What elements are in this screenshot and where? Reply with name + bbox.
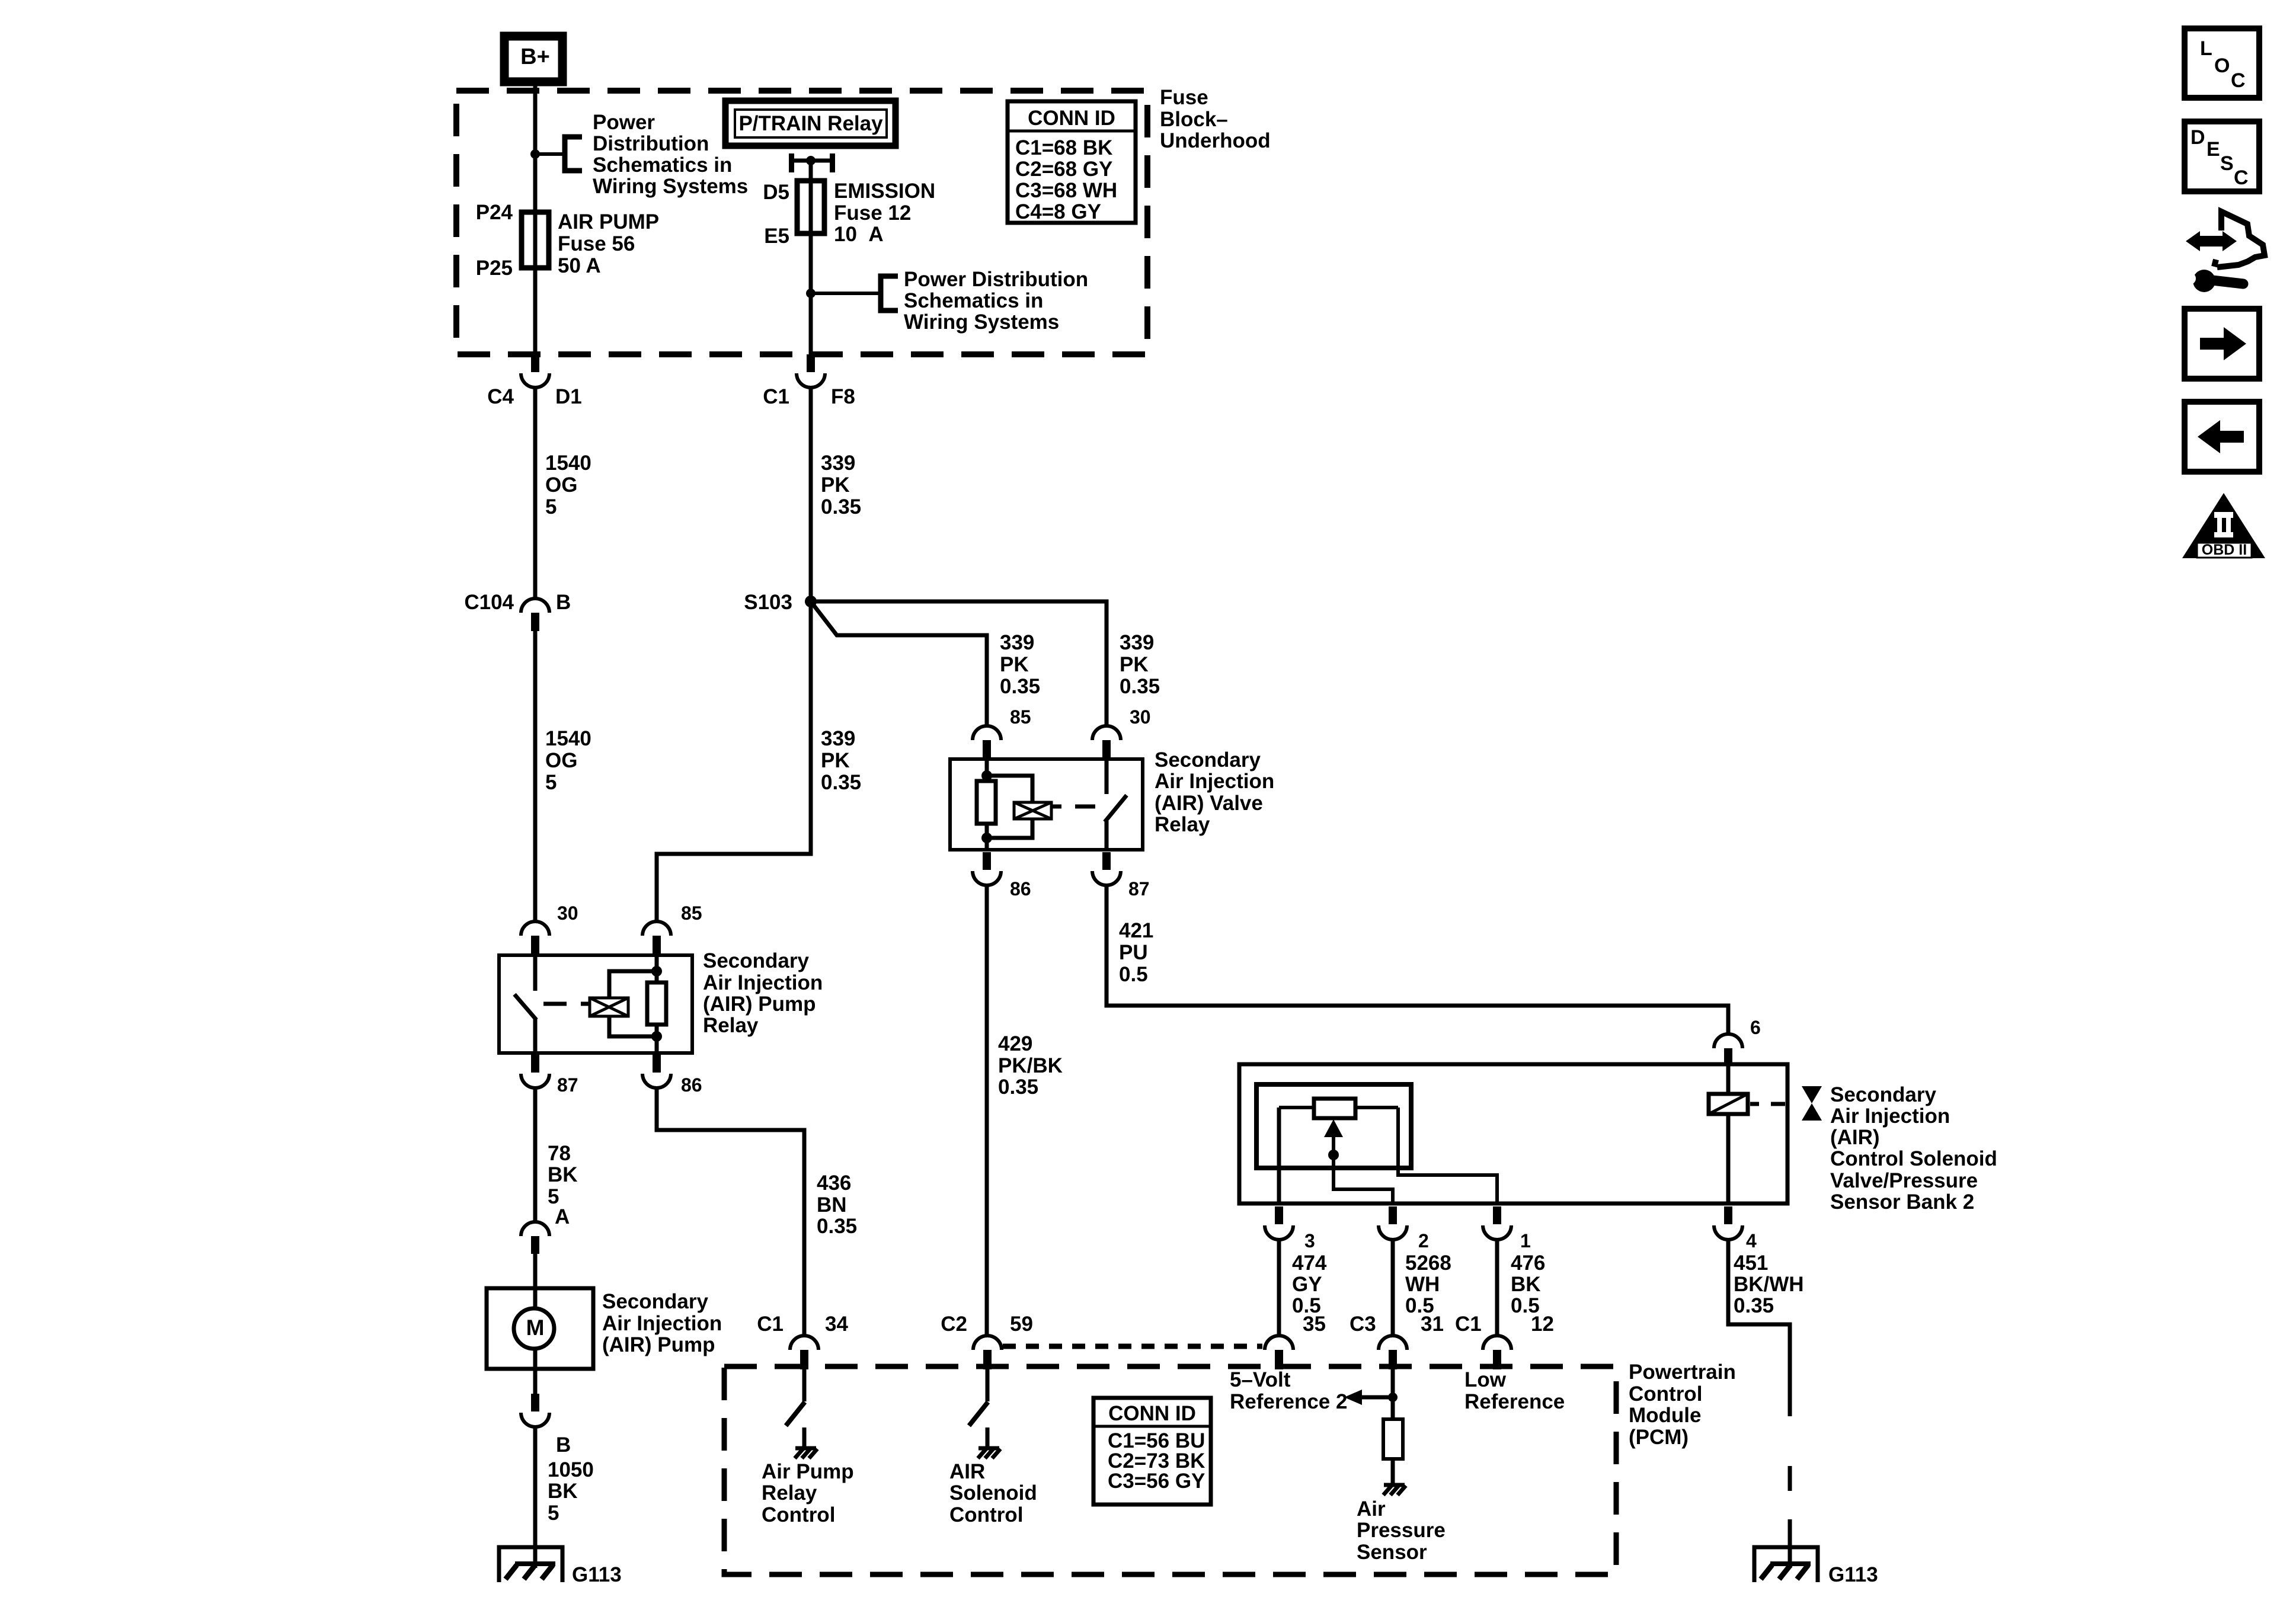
svg-text:4: 4 xyxy=(1746,1230,1757,1251)
svg-text:Reference 2: Reference 2 xyxy=(1230,1390,1347,1413)
CONN ID rows 1 xyxy=(1015,136,1117,223)
svg-text:Relay: Relay xyxy=(703,1014,759,1037)
svg-text:Air Pump: Air Pump xyxy=(762,1460,854,1483)
pump relay pin 87 label xyxy=(557,1074,578,1096)
svg-text:Fuse: Fuse xyxy=(1160,86,1208,109)
wire S103 down to pump relay 85 xyxy=(657,601,811,920)
connector valve relay pin 30 xyxy=(1092,726,1121,759)
svg-text:OBD II: OBD II xyxy=(2202,542,2247,558)
svg-text:PK: PK xyxy=(821,473,850,497)
svg-text:34: 34 xyxy=(825,1313,848,1336)
svg-text:Secondary: Secondary xyxy=(602,1290,708,1313)
P/TRAIN Relay label xyxy=(738,112,883,135)
relay K2 Secondary Air Injection (AIR) Valve Relay box xyxy=(950,759,1143,850)
svg-text:Air Injection: Air Injection xyxy=(703,971,823,994)
air pressure sensor resistor xyxy=(1383,1419,1403,1459)
svg-text:86: 86 xyxy=(681,1074,702,1096)
svg-text:A: A xyxy=(555,1205,570,1228)
svg-text:S: S xyxy=(2220,152,2234,175)
svg-text:Module: Module xyxy=(1629,1404,1701,1427)
pump pin A label xyxy=(555,1205,570,1228)
pump label xyxy=(602,1290,722,1356)
svg-text:AIR: AIR xyxy=(949,1460,985,1483)
svg-text:Power: Power xyxy=(593,111,655,134)
svg-text:E: E xyxy=(2207,138,2220,161)
svg-text:BK/WH: BK/WH xyxy=(1734,1273,1804,1296)
valve relay switch blade xyxy=(1105,795,1127,822)
svg-text:Relay: Relay xyxy=(1155,813,1210,836)
wire label 5268 WH xyxy=(1405,1251,1451,1317)
PCM C3 label xyxy=(1350,1313,1376,1336)
connector pump pin B xyxy=(521,1394,549,1427)
svg-text:Secondary: Secondary xyxy=(1155,748,1261,772)
connector sensor pin 3 xyxy=(1265,1206,1293,1240)
svg-text:Schematics in: Schematics in xyxy=(904,289,1043,312)
node pump relay coil bottom xyxy=(651,1031,662,1042)
svg-text:5268: 5268 xyxy=(1405,1251,1451,1275)
pump relay coil resistor xyxy=(647,982,666,1025)
svg-text:421: 421 xyxy=(1119,919,1153,942)
PCM C2 label xyxy=(941,1313,967,1336)
svg-text:429: 429 xyxy=(998,1032,1032,1055)
icon LOC box xyxy=(2185,28,2259,98)
wire S103 to valve relay 30 xyxy=(811,601,1107,725)
svg-text:Block–: Block– xyxy=(1160,108,1228,131)
connector PCM pin 31 xyxy=(1379,1336,1407,1369)
connector sensor pin 6 xyxy=(1714,1034,1742,1065)
svg-text:S103: S103 xyxy=(744,591,792,614)
wire to power distribution reference xyxy=(535,152,564,156)
fuse 56 terminal labels xyxy=(476,201,513,280)
svg-text:G113: G113 xyxy=(1828,1563,1878,1586)
pump relay pin 86 label xyxy=(681,1074,702,1096)
svg-text:Solenoid: Solenoid xyxy=(949,1481,1037,1505)
svg-text:OG: OG xyxy=(545,473,577,497)
svg-text:30: 30 xyxy=(1130,706,1151,728)
svg-text:C4=8 GY: C4=8 GY xyxy=(1015,200,1101,223)
svg-text:12: 12 xyxy=(1531,1313,1554,1336)
svg-text:Air Injection: Air Injection xyxy=(1830,1105,1950,1128)
svg-text:Schematics in: Schematics in xyxy=(593,153,732,177)
fuse 12 terminal labels D5 E5 xyxy=(763,181,789,248)
pump relay actuator dashes xyxy=(543,1002,589,1006)
node valve relay coil top xyxy=(981,770,992,781)
svg-text:5–Volt: 5–Volt xyxy=(1230,1368,1291,1391)
wire label 476 BK xyxy=(1511,1251,1545,1317)
svg-text:Air: Air xyxy=(1357,1497,1386,1521)
connector PCM pin 12 xyxy=(1483,1336,1511,1369)
svg-text:339: 339 xyxy=(821,452,855,475)
PCM 34 label xyxy=(825,1313,848,1336)
dotted connector line xyxy=(1003,1344,1262,1349)
connector B label xyxy=(556,591,571,614)
CONN ID rows 2 xyxy=(1108,1429,1205,1493)
pump relay switch blade xyxy=(514,994,536,1020)
connector C1 F8 xyxy=(797,354,825,388)
wire 1050 BK to ground xyxy=(533,1426,538,1568)
svg-text:EMISSION: EMISSION xyxy=(834,180,935,203)
wire 451 dashed segment xyxy=(1788,1466,1792,1542)
svg-text:Secondary: Secondary xyxy=(1830,1083,1936,1106)
svg-text:C2: C2 xyxy=(941,1313,967,1336)
svg-text:Distribution: Distribution xyxy=(593,132,709,155)
fuse 12 value label xyxy=(834,180,935,246)
CONN ID table fuse block xyxy=(1008,101,1136,223)
wire label 421 PU xyxy=(1119,919,1153,986)
svg-text:BN: BN xyxy=(817,1193,847,1217)
valve relay pin 87 label xyxy=(1128,878,1150,900)
svg-text:339: 339 xyxy=(1120,631,1154,654)
wire 78 BK to pump xyxy=(533,1087,538,1221)
svg-text:0.35: 0.35 xyxy=(1734,1294,1774,1317)
svg-text:5: 5 xyxy=(548,1502,559,1525)
connector C4 D1 xyxy=(521,354,549,388)
svg-text:Sensor Bank 2: Sensor Bank 2 xyxy=(1830,1190,1974,1214)
node valve relay coil bottom xyxy=(981,833,992,843)
svg-text:C1=68 BK: C1=68 BK xyxy=(1015,136,1112,159)
svg-text:BK: BK xyxy=(548,1163,578,1186)
svg-text:476: 476 xyxy=(1511,1251,1545,1275)
valve relay switch stub top xyxy=(1105,759,1109,794)
CONN ID table PCM xyxy=(1093,1398,1211,1505)
svg-text:Relay: Relay xyxy=(762,1481,817,1505)
svg-text:(AIR) Pump: (AIR) Pump xyxy=(602,1333,715,1356)
wire 476 BK xyxy=(1495,1238,1499,1334)
svg-text:B: B xyxy=(556,1433,571,1457)
svg-text:C1: C1 xyxy=(763,385,789,408)
off-page reference bracket (power distribution) xyxy=(565,137,582,171)
svg-text:Wiring Systems: Wiring Systems xyxy=(593,175,748,198)
svg-text:Air Injection: Air Injection xyxy=(1155,770,1274,793)
svg-text:86: 86 xyxy=(1010,878,1031,900)
svg-text:3: 3 xyxy=(1304,1230,1315,1251)
wire B+ to fuse block xyxy=(533,78,538,354)
svg-text:C104: C104 xyxy=(464,591,514,614)
svg-text:474: 474 xyxy=(1292,1251,1327,1275)
pump relay pin 30 label xyxy=(557,902,578,924)
ground air pressure sensor xyxy=(1383,1485,1406,1495)
sensor pin 3 wire xyxy=(1277,1108,1281,1204)
svg-text:87: 87 xyxy=(1128,878,1150,900)
solenoid coil wire xyxy=(1726,1065,1731,1204)
svg-text:BK: BK xyxy=(548,1480,578,1503)
LOC letters xyxy=(2200,37,2246,92)
wire label 429 PK/BK xyxy=(998,1032,1063,1099)
wire label 339 PK upper xyxy=(821,452,861,518)
sensor pin 3 label xyxy=(1304,1230,1315,1251)
svg-text:35: 35 xyxy=(1303,1313,1326,1336)
wire label 436 BN xyxy=(817,1172,857,1238)
wire 451 into ground xyxy=(1788,1542,1792,1568)
svg-text:31: 31 xyxy=(1421,1313,1444,1336)
fuse EMISSION Fuse 12 10A xyxy=(797,181,824,233)
sensor pin 6 label xyxy=(1750,1017,1761,1038)
solenoid coil xyxy=(1709,1094,1748,1114)
svg-text:30: 30 xyxy=(557,902,578,924)
pump relay coil parallel branch xyxy=(609,971,657,1036)
PCM C1 label xyxy=(757,1313,784,1336)
fuse block underhood dashed box xyxy=(456,91,1147,354)
valve relay actuator dashes xyxy=(1051,805,1095,809)
svg-text:(AIR) Pump: (AIR) Pump xyxy=(703,993,816,1016)
svg-text:C1: C1 xyxy=(757,1313,784,1336)
relay K1 Secondary Air Injection (AIR) Pump Relay box xyxy=(499,955,692,1053)
connector PCM C1 34 xyxy=(790,1336,818,1369)
svg-text:BK: BK xyxy=(1511,1273,1541,1296)
svg-text:Powertrain: Powertrain xyxy=(1629,1361,1736,1384)
svg-text:C3=68 WH: C3=68 WH xyxy=(1015,179,1117,202)
power distribution note 2 xyxy=(904,268,1088,334)
svg-text:PU: PU xyxy=(1119,941,1148,964)
valve relay coil wire xyxy=(985,759,989,850)
svg-text:436: 436 xyxy=(817,1172,851,1195)
svg-text:78: 78 xyxy=(548,1142,571,1165)
svg-text:1: 1 xyxy=(1520,1230,1531,1251)
PCM label xyxy=(1629,1361,1736,1449)
node junction on B+ wire xyxy=(530,149,540,159)
svg-text:(AIR): (AIR) xyxy=(1830,1126,1880,1149)
svg-text:0.35: 0.35 xyxy=(821,771,861,794)
wire label 339 PK lower xyxy=(821,727,861,794)
svg-text:C: C xyxy=(2234,167,2249,189)
potentiometer wiper arrow xyxy=(1324,1119,1393,1204)
wire 5268 WH xyxy=(1391,1238,1395,1334)
wire label 451 BK/WH xyxy=(1734,1251,1804,1317)
ground G113 left xyxy=(499,1547,562,1582)
solenoid valve symbol xyxy=(1802,1086,1822,1121)
svg-text:Underhood: Underhood xyxy=(1160,129,1271,152)
node junction below fuse 12 xyxy=(806,289,816,298)
svg-text:F8: F8 xyxy=(831,385,855,408)
Secondary Air Injection (AIR) Pump motor xyxy=(487,1288,593,1369)
wire 474 GY xyxy=(1277,1238,1281,1334)
svg-text:C: C xyxy=(2231,69,2246,92)
svg-text:B: B xyxy=(556,591,571,614)
potentiometer resistor xyxy=(1314,1099,1355,1118)
power distribution note 1 xyxy=(593,111,748,198)
PCM C1b label xyxy=(1455,1313,1482,1336)
connector valve relay pin 85 xyxy=(973,726,1001,759)
fuse AIR PUMP Fuse 56 50A xyxy=(522,212,549,268)
svg-text:C2=68 GY: C2=68 GY xyxy=(1015,158,1112,181)
air pump relay control driver switch xyxy=(786,1369,805,1448)
svg-text:M: M xyxy=(526,1315,545,1340)
svg-text:0.35: 0.35 xyxy=(998,1076,1038,1099)
svg-text:6: 6 xyxy=(1750,1017,1761,1038)
svg-text:L: L xyxy=(2200,37,2212,60)
pressure sensor inner box xyxy=(1256,1084,1411,1168)
svg-text:Fuse 56: Fuse 56 xyxy=(558,232,635,255)
svg-text:Sensor: Sensor xyxy=(1357,1541,1427,1564)
icon OBD II triangle xyxy=(2182,493,2265,558)
valve relay pin 86 label xyxy=(1010,878,1031,900)
wire 451 BK/WH xyxy=(1728,1238,1790,1416)
ground air pump relay control xyxy=(795,1448,817,1458)
OBD II text xyxy=(2202,542,2247,558)
svg-text:D: D xyxy=(2191,126,2205,149)
svg-text:59: 59 xyxy=(1010,1313,1033,1336)
valve relay solenoid box-X xyxy=(1014,802,1051,819)
PCM pin 31 label xyxy=(1421,1313,1444,1336)
svg-text:0.35: 0.35 xyxy=(821,495,861,518)
DESC letters xyxy=(2191,126,2249,189)
connector sensor pin 2 xyxy=(1379,1206,1407,1240)
svg-text:85: 85 xyxy=(681,902,702,924)
pump relay coil wire xyxy=(655,955,659,1053)
svg-text:0.35: 0.35 xyxy=(1120,675,1160,698)
wire label 1050 BK xyxy=(548,1458,594,1525)
connector sensor pin 1 xyxy=(1483,1206,1511,1240)
icon diagnostic (arrows, outline, wrench) xyxy=(2184,212,2265,292)
svg-text:451: 451 xyxy=(1734,1251,1768,1275)
svg-text:Control: Control xyxy=(1629,1382,1702,1406)
connector C4 label xyxy=(487,385,514,408)
svg-text:Low: Low xyxy=(1464,1368,1507,1391)
connector valve relay pin 86 xyxy=(973,852,1001,885)
svg-text:C4: C4 xyxy=(487,385,514,408)
connector C1 label xyxy=(763,385,789,408)
wire 436 BN pump 86 to C1 34 xyxy=(657,1087,804,1334)
connector PCM C2 59 xyxy=(973,1336,1002,1369)
PCM 59 label xyxy=(1010,1313,1033,1336)
svg-text:1540: 1540 xyxy=(545,452,591,475)
G113 right label xyxy=(1828,1563,1878,1586)
connector sensor pin 4 xyxy=(1714,1206,1742,1240)
solenoid actuator dashes xyxy=(1750,1102,1785,1106)
svg-text:E5: E5 xyxy=(764,225,789,248)
svg-text:D1: D1 xyxy=(555,385,582,408)
wire 429 PK/BK valve 86 to C2 xyxy=(985,885,989,1334)
CONN ID title 1 xyxy=(1028,107,1115,130)
valve relay label xyxy=(1155,748,1274,836)
AIR solenoid control label xyxy=(949,1460,1037,1526)
pump relay solenoid box-X xyxy=(590,998,628,1016)
icon forward arrow box xyxy=(2185,309,2259,379)
motor M label xyxy=(526,1315,545,1340)
svg-text:(AIR) Valve: (AIR) Valve xyxy=(1155,792,1263,815)
G113 left label xyxy=(572,1563,622,1586)
svg-text:339: 339 xyxy=(821,727,855,750)
off-page reference bracket 2 xyxy=(881,276,898,311)
svg-text:PK: PK xyxy=(821,749,850,772)
5-volt reference label xyxy=(1230,1368,1347,1413)
air pressure sensor input circuit xyxy=(1344,1369,1393,1419)
svg-text:87: 87 xyxy=(557,1074,578,1096)
CONN ID title 2 xyxy=(1108,1402,1196,1425)
PCM pin 35 label xyxy=(1303,1313,1326,1336)
svg-text:Air Injection: Air Injection xyxy=(602,1312,722,1335)
valve relay switch stub bottom xyxy=(1105,821,1109,850)
svg-text:PK: PK xyxy=(1120,653,1149,676)
wire label 474 GY xyxy=(1292,1251,1327,1317)
air pressure sensor ground wire xyxy=(1391,1459,1395,1484)
wire 1540 OG upper xyxy=(533,386,538,597)
svg-text:1050: 1050 xyxy=(548,1458,594,1481)
svg-text:PK/BK: PK/BK xyxy=(998,1054,1063,1077)
svg-text:Wiring Systems: Wiring Systems xyxy=(904,311,1059,334)
P/TRAIN relay terminal symbol xyxy=(789,153,835,172)
wire label 78 BK xyxy=(548,1142,578,1208)
wire 1540 OG lower xyxy=(533,631,538,920)
svg-text:0.35: 0.35 xyxy=(1000,675,1040,698)
svg-text:OG: OG xyxy=(545,749,577,772)
wire label 1540 OG 5 lower xyxy=(545,727,591,794)
connector pump pin A xyxy=(521,1222,549,1254)
svg-text:CONN ID: CONN ID xyxy=(1108,1402,1196,1425)
connector PCM pin 35 xyxy=(1265,1336,1293,1369)
valve relay pin 85 label xyxy=(1010,706,1031,728)
svg-text:P/TRAIN Relay: P/TRAIN Relay xyxy=(738,112,883,135)
svg-text:P25: P25 xyxy=(476,257,513,280)
svg-text:0.5: 0.5 xyxy=(1119,963,1148,986)
pump pin B label xyxy=(556,1433,571,1457)
svg-text:PK: PK xyxy=(1000,653,1029,676)
svg-text:Control Solenoid: Control Solenoid xyxy=(1830,1147,1997,1170)
svg-text:2: 2 xyxy=(1418,1230,1429,1251)
svg-text:CONN ID: CONN ID xyxy=(1028,107,1115,130)
connector pump relay pin 85 xyxy=(642,921,671,954)
pump relay label xyxy=(703,949,823,1037)
sensor pin 1 label xyxy=(1520,1230,1531,1251)
svg-text:O: O xyxy=(2214,55,2230,77)
svg-text:Control: Control xyxy=(762,1503,835,1526)
svg-text:0.35: 0.35 xyxy=(817,1215,857,1238)
wire into pump motor xyxy=(533,1254,538,1369)
svg-text:C1: C1 xyxy=(1455,1313,1482,1336)
air pump relay control label xyxy=(762,1460,854,1526)
svg-text:85: 85 xyxy=(1010,706,1031,728)
P/TRAIN Relay box xyxy=(725,101,896,146)
svg-text:C3: C3 xyxy=(1350,1313,1376,1336)
Secondary AIR control solenoid valve/pressure sensor box xyxy=(1239,1064,1787,1204)
svg-text:50 A: 50 A xyxy=(558,254,601,277)
ground AIR solenoid control xyxy=(978,1448,1000,1458)
wire label 339 PK at 30 xyxy=(1120,631,1160,698)
pump relay pin 85 label xyxy=(681,902,702,924)
battery feed B+ box xyxy=(504,36,562,82)
connector valve relay pin 87 xyxy=(1092,852,1121,885)
connector C4 D1 labels xyxy=(555,385,582,408)
wire to power distribution reference 2 xyxy=(811,292,880,295)
valve relay coil parallel branch xyxy=(987,776,1032,838)
svg-text:B+: B+ xyxy=(520,44,550,69)
svg-text:(PCM): (PCM) xyxy=(1629,1426,1689,1449)
svg-text:P24: P24 xyxy=(476,201,513,224)
svg-text:Secondary: Secondary xyxy=(703,949,809,972)
icon DESC box xyxy=(2185,121,2259,191)
svg-text:WH: WH xyxy=(1405,1273,1440,1296)
wire label 1540 OG 5 upper xyxy=(545,452,591,518)
connector C104 label xyxy=(464,591,514,614)
wire S103 to valve relay 85 xyxy=(811,601,987,725)
sensor pin 2 label xyxy=(1418,1230,1429,1251)
svg-text:1540: 1540 xyxy=(545,727,591,750)
B+ label xyxy=(520,44,550,69)
svg-text:10 A: 10 A xyxy=(834,223,884,246)
svg-text:GY: GY xyxy=(1292,1273,1322,1296)
pump relay switch stub bottom xyxy=(533,1019,538,1053)
node P/TRAIN relay terminal xyxy=(806,156,816,165)
svg-text:Reference: Reference xyxy=(1464,1390,1565,1413)
Powertrain Control Module dashed box xyxy=(724,1366,1616,1574)
svg-text:Valve/Pressure: Valve/Pressure xyxy=(1830,1169,1978,1192)
connector C104 B xyxy=(521,598,549,631)
wire pump to connector B xyxy=(533,1369,538,1394)
svg-text:Control: Control xyxy=(949,1503,1023,1526)
sensor pin 4 label xyxy=(1746,1230,1757,1251)
connector pump relay pin 30 xyxy=(521,921,549,954)
svg-text:Pressure: Pressure xyxy=(1357,1519,1446,1542)
